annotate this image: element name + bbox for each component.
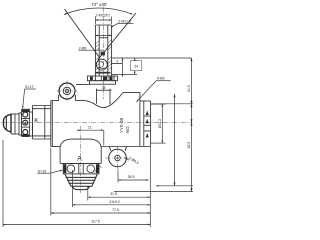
vertical dimension to plug tip	[174, 94, 176, 186]
port B boss sides	[96, 89, 98, 104]
svg-text:4: 4	[116, 59, 118, 63]
svg-text:24: 24	[134, 65, 138, 69]
body top-left shelf	[51, 100, 59, 102]
circle boss sides	[58, 95, 60, 101]
fitting B stem thread lines	[98, 25, 100, 76]
svg-text:74° ±30': 74° ±30'	[91, 2, 107, 7]
svg-text:41±0.2: 41±0.2	[109, 200, 120, 204]
cone line left	[65, 9, 100, 58]
mounting hole circle top-left	[59, 83, 75, 99]
dimension 26.5	[118, 179, 149, 181]
main horizontal centerline	[1, 121, 193, 123]
svg-text:82.5: 82.5	[187, 142, 191, 149]
svg-text:31.5: 31.5	[110, 192, 117, 196]
bore dimension	[95, 35, 111, 37]
spring seat band	[96, 72, 111, 74]
svg-text:77.5: 77.5	[112, 208, 119, 212]
cone line right	[98, 13, 136, 60]
hex nut K with holes	[22, 109, 30, 136]
flange washer skirt	[90, 81, 116, 85]
poppet tip seat blob	[101, 52, 105, 56]
stem wall hatching	[95, 40, 111, 71]
right vertical dimension O10.2	[151, 103, 166, 105]
svg-text:S=19: S=19	[38, 169, 47, 173]
body left block	[50, 101, 52, 147]
plug flare rings	[65, 174, 98, 190]
svg-text:9-Ø3: 9-Ø3	[157, 77, 165, 81]
body right edge	[139, 92, 141, 146]
bottom boss dome	[60, 139, 101, 147]
washer inner	[19, 113, 22, 135]
svg-text:2-Ø6: 2-Ø6	[79, 46, 87, 50]
svg-text:11: 11	[88, 126, 92, 130]
fitting B stem outer walls	[94, 25, 96, 76]
svg-text:A: A	[77, 155, 82, 162]
platform edge left of flange	[76, 84, 90, 86]
body bottom edge	[51, 146, 61, 148]
dimension 41	[72, 204, 150, 206]
fitting B hex flange	[87, 76, 117, 81]
dimension M22	[95, 19, 111, 21]
cone cap nose	[4, 114, 12, 132]
dimension 31.5	[88, 196, 151, 198]
washer outer	[30, 112, 33, 136]
svg-text:Ø10.2: Ø10.2	[158, 119, 162, 128]
angle dimension arc	[64, 8, 133, 15]
cap cylinder	[11, 113, 19, 115]
svg-text:NO.: NO.	[125, 125, 130, 133]
dimension 77.5	[51, 212, 151, 214]
bottom dimension extension lines	[2, 140, 4, 227]
dimension 117.5	[3, 224, 150, 226]
hex nut A	[63, 163, 99, 174]
far right dimension chain	[151, 103, 193, 105]
dimension 11	[77, 129, 104, 131]
svg-text:2-Ø11.8: 2-Ø11.8	[118, 20, 131, 24]
body top right shelf	[123, 91, 140, 93]
svg-text:61.5: 61.5	[187, 85, 191, 92]
svg-text:26.5: 26.5	[128, 175, 135, 179]
dimension 24 boxed	[134, 58, 136, 74]
svg-text:117.5: 117.5	[91, 220, 100, 224]
svg-text:S=17: S=17	[25, 85, 34, 89]
fitting B stem top edge	[95, 24, 111, 26]
svg-text:YYK-1B: YYK-1B	[119, 118, 124, 133]
port B centerline	[102, 7, 104, 99]
svg-text:K: K	[34, 118, 38, 124]
poppet ball	[96, 59, 107, 70]
dimension stem to flange	[121, 58, 123, 77]
svg-text:2-M22X1: 2-M22X1	[96, 13, 111, 17]
right column boss	[140, 100, 151, 102]
mounting ear circle bottom-right	[109, 149, 127, 167]
port A centerline	[80, 126, 82, 193]
step lines right of stem	[112, 57, 192, 59]
svg-text:B: B	[102, 85, 105, 90]
body saddle valley	[83, 93, 123, 108]
